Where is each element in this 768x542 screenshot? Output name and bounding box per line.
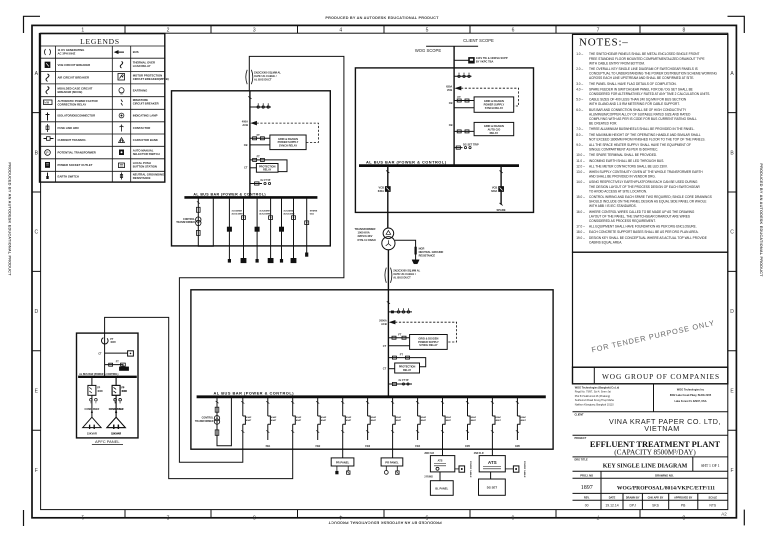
column numbers bottom bbox=[81, 514, 685, 520]
svg-text:4.0 –: 4.0 – bbox=[576, 87, 583, 91]
legend symbol contactor bbox=[120, 125, 124, 132]
svg-text:BREAKER (MCCB): BREAKER (MCCB) bbox=[58, 90, 83, 94]
svg-text:CONTROL WIRING AND EACH SPARE: CONTROL WIRING AND EACH SPARE TWO REQUIR… bbox=[589, 195, 712, 199]
fuse trip tap bbox=[454, 147, 462, 149]
panel box LV switchboard bbox=[191, 290, 553, 449]
svg-text:BUS BAR AND CONNECTION SHALL B: BUS BAR AND CONNECTION SHALL BE OF HIGH … bbox=[589, 108, 687, 112]
svg-text:AL BUS DUCT: AL BUS DUCT bbox=[254, 78, 272, 82]
svg-text:AL BUS BAR (POWER & CONTROL): AL BUS BAR (POWER & CONTROL) bbox=[366, 160, 447, 165]
svg-text:AIR CIRCUIT BREAKER: AIR CIRCUIT BREAKER bbox=[58, 76, 90, 80]
svg-text:RESISTANCE: RESISTANCE bbox=[419, 254, 436, 258]
svg-text:6.0 –: 6.0 – bbox=[576, 108, 583, 112]
svg-text:RESISTANCE: RESISTANCE bbox=[133, 176, 151, 180]
svg-text:AL BUS DUCT: AL BUS DUCT bbox=[393, 276, 411, 280]
svg-text:1: 1 bbox=[81, 514, 84, 520]
capacitor bank delta bbox=[107, 417, 125, 427]
svg-text:WHEN SUPPLY CONTINUITY GIVEN A: WHEN SUPPLY CONTINUITY GIVEN AT THE WHOL… bbox=[589, 170, 703, 174]
svg-text:63AF: 63AF bbox=[246, 416, 252, 419]
column ticks top bbox=[125, 25, 640, 33]
meter box bbox=[128, 351, 134, 356]
sub panel MCC ATS group A bbox=[424, 449, 471, 495]
svg-text:10.0 –: 10.0 – bbox=[576, 153, 585, 157]
fuse F1 bbox=[197, 207, 201, 212]
svg-text:XLPE UG CABLE /: XLPE UG CABLE / bbox=[393, 272, 416, 276]
svg-text:CORRECTION RELAY: CORRECTION RELAY bbox=[58, 102, 87, 106]
indicator lamps bbox=[90, 399, 93, 402]
svg-text:PRODUCED BY AN AUTODESK EDUCAT: PRODUCED BY AN AUTODESK EDUCATIONAL PROD… bbox=[325, 16, 439, 20]
svg-text:14.0 –: 14.0 – bbox=[576, 180, 585, 184]
svg-text:CLIENT: CLIENT bbox=[575, 414, 585, 417]
row letters right bbox=[730, 71, 734, 474]
svg-text:GRID & DG/GEN: GRID & DG/GEN bbox=[418, 336, 438, 340]
svg-text:AC 3PH 50HZ: AC 3PH 50HZ bbox=[58, 52, 76, 56]
svg-text:4: 4 bbox=[339, 514, 342, 520]
svg-text:19.12.14: 19.12.14 bbox=[605, 504, 618, 508]
svg-text:AL BUS BAR (POWER & CONTROL): AL BUS BAR (POWER & CONTROL) bbox=[79, 373, 118, 376]
svg-text:CURRENT TRANSFO.: CURRENT TRANSFO. bbox=[58, 138, 87, 142]
legend symbol fuse bbox=[47, 124, 49, 132]
svg-text:CIRCUIT BREAKER(MPCB): CIRCUIT BREAKER(MPCB) bbox=[133, 77, 169, 81]
resistor NGR bbox=[415, 247, 417, 254]
svg-text:FP: FP bbox=[97, 388, 100, 390]
svg-text:Lake Forest FL 32937, USA: Lake Forest FL 32937, USA bbox=[674, 400, 706, 403]
svg-text:630A: 630A bbox=[446, 85, 452, 89]
svg-text:THE MAXIMUM HEIGHT OF THE OPER: THE MAXIMUM HEIGHT OF THE OPERATING HAND… bbox=[589, 133, 701, 137]
svg-text:POWER CABLE: POWER CABLE bbox=[469, 461, 472, 478]
corner trim mark bottom-left bbox=[23, 510, 25, 526]
legend symbol isolator bbox=[46, 113, 50, 121]
svg-text:8002 Lake Creek Pkwy, BLDG #20: 8002 Lake Creek Pkwy, BLDG #205 bbox=[670, 394, 712, 397]
svg-text:LOAD RELAY: LOAD RELAY bbox=[133, 64, 151, 68]
svg-text:63A: 63A bbox=[310, 212, 314, 215]
svg-text:2: 2 bbox=[167, 27, 170, 33]
svg-text:40AT: 40AT bbox=[396, 419, 402, 422]
svg-text:400A: 400A bbox=[242, 119, 248, 123]
svg-text:40AT: 40AT bbox=[446, 419, 452, 422]
middle-left MCC panel bbox=[172, 91, 331, 263]
svg-text:WOG GROUP OF COMPANIES: WOG GROUP OF COMPANIES bbox=[602, 372, 720, 381]
svg-text:15KVAR: 15KVAR bbox=[87, 432, 97, 436]
svg-text:11.0 –: 11.0 – bbox=[576, 159, 585, 163]
svg-text:1000 KVA: 1000 KVA bbox=[358, 231, 370, 235]
svg-text:PR PANEL: PR PANEL bbox=[385, 460, 399, 464]
relay U2 auto changeover relay box bbox=[474, 122, 514, 135]
ground earth arrow bbox=[412, 260, 419, 264]
wire ct tap to synch relay bbox=[388, 345, 409, 347]
svg-text:WOG Technologies (Bangkok) Co.: WOG Technologies (Bangkok) Co.Ltd bbox=[575, 386, 620, 389]
capacitor bank delta bbox=[83, 417, 101, 427]
svg-text:2ND FLR: 2ND FLR bbox=[424, 453, 434, 455]
wire APFC feeder cable route bbox=[105, 317, 293, 478]
svg-text:LEGENDS: LEGENDS bbox=[80, 37, 120, 46]
column numbers top bbox=[81, 27, 685, 33]
svg-text:SYNCH RELAY: SYNCH RELAY bbox=[419, 343, 438, 347]
legend symbol ct bbox=[44, 138, 54, 140]
revision header row bbox=[573, 493, 728, 509]
LV bus outgoing feeders bbox=[241, 397, 526, 449]
transformer control CT1 bbox=[196, 217, 201, 222]
notes box bbox=[573, 34, 728, 252]
svg-text:63AF: 63AF bbox=[271, 416, 277, 419]
svg-text:63AF: 63AF bbox=[296, 416, 302, 419]
svg-text:AUTO C/O: AUTO C/O bbox=[488, 128, 501, 132]
svg-text:1: 1 bbox=[81, 27, 84, 33]
wire kwh meter tap bbox=[454, 59, 469, 61]
svg-text:2000A: 2000A bbox=[379, 319, 387, 323]
svg-text:THE PANEL SHALL HAVE FLAG DETA: THE PANEL SHALL HAVE FLAG DETAILS OF COM… bbox=[589, 82, 677, 86]
cable marker MCC incomer bbox=[246, 70, 253, 84]
legend symbol mccb bbox=[46, 87, 49, 95]
svg-text:SELECTOR SWITCH: SELECTOR SWITCH bbox=[133, 152, 160, 156]
panel box MCC bbox=[172, 91, 331, 246]
bus bar HT (power and control) bbox=[359, 164, 519, 167]
svg-text:NOTES:–: NOTES:– bbox=[579, 37, 629, 49]
legends table bbox=[40, 34, 169, 183]
feeder F7 bbox=[391, 397, 402, 449]
svg-text:THREE ALUMINIUM BUSWHEELS SHAL: THREE ALUMINIUM BUSWHEELS SHALL BE PROVI… bbox=[589, 127, 695, 131]
svg-text:AL BUS BAR (POWER & CONTROL): AL BUS BAR (POWER & CONTROL) bbox=[193, 192, 266, 196]
transformer control CT2 bbox=[214, 416, 219, 421]
svg-text:RELAY: RELAY bbox=[403, 369, 412, 372]
svg-text:2X(3CX300 SQ.MM AL: 2X(3CX300 SQ.MM AL bbox=[393, 269, 420, 273]
project no value row bbox=[573, 492, 728, 494]
svg-text:SINGLE COMPARTMENT AS PER IS 6: SINGLE COMPARTMENT AS PER IS 60947/IEC. bbox=[589, 148, 658, 152]
svg-text:CONSIDERED AS PROCESS REQUIREM: CONSIDERED AS PROCESS REQUIREMENT. bbox=[589, 219, 656, 223]
svg-text:1.0 –: 1.0 – bbox=[576, 52, 583, 56]
svg-text:ALL THE SPACE HEATER SUPPLY SH: ALL THE SPACE HEATER SUPPLY SHALL HAVE T… bbox=[589, 143, 691, 147]
svg-text:40AT: 40AT bbox=[521, 419, 527, 422]
svg-text:22KV/0.4KV: 22KV/0.4KV bbox=[358, 234, 373, 238]
svg-text:PR PANEL: PR PANEL bbox=[336, 460, 350, 464]
svg-text:8.0 –: 8.0 – bbox=[576, 133, 583, 137]
wire incomer drop bbox=[249, 91, 251, 198]
svg-text:F: F bbox=[35, 468, 38, 474]
svg-text:E: E bbox=[35, 389, 39, 395]
svg-text:WOG/PROPOSAL/8014/VKPC/ETP/111: WOG/PROPOSAL/8014/VKPC/ETP/111 bbox=[617, 485, 715, 491]
legend symbol overload relay bbox=[120, 62, 123, 69]
svg-text:3x CT 5P: 3x CT 5P bbox=[260, 179, 271, 182]
svg-text:KEY SINGLE LINE DIAGRAM: KEY SINGLE LINE DIAGRAM bbox=[603, 464, 688, 470]
svg-text:FT: FT bbox=[116, 360, 119, 363]
capacitor branch bbox=[107, 377, 127, 436]
svg-text:400V: 400V bbox=[110, 341, 116, 344]
svg-text:A2: A2 bbox=[721, 512, 727, 517]
client row bbox=[573, 434, 728, 436]
feeder F8 bbox=[415, 397, 427, 448]
inner band line bbox=[41, 33, 728, 509]
feeder left VCB outgoing bbox=[387, 166, 389, 228]
project row bbox=[573, 456, 728, 458]
legend symbol socket bbox=[45, 162, 50, 168]
svg-text:Sukhumvit Road Krung Thep Maha: Sukhumvit Road Krung Thep Maha bbox=[575, 399, 615, 402]
outgoing feeder spare bbox=[305, 197, 318, 256]
svg-text:INDICATING LAMP: INDICATING LAMP bbox=[133, 114, 158, 118]
legend symbol mcb bbox=[121, 100, 123, 106]
legend symbol mpcb bbox=[118, 74, 125, 81]
svg-text:19.0 –: 19.0 – bbox=[576, 236, 585, 240]
wire ct tap to synch relay bbox=[454, 107, 474, 109]
title block bbox=[573, 252, 728, 509]
legend symbol apfc relay bbox=[44, 100, 53, 105]
legends grid lines bbox=[40, 46, 165, 171]
svg-text:DRG TITLE: DRG TITLE bbox=[575, 459, 589, 462]
svg-text:RELAY: RELAY bbox=[490, 131, 499, 135]
svg-text:1W2: 1W2 bbox=[315, 445, 321, 448]
svg-text:VCB: VCB bbox=[492, 186, 498, 190]
sub panel PR2 bbox=[381, 449, 403, 474]
legend symbol lamp bbox=[119, 113, 124, 118]
APFC panel bbox=[77, 333, 139, 445]
svg-text:Plot 54 Sukhumvit 26 (Prakong): Plot 54 Sukhumvit 26 (Prakong) bbox=[575, 395, 610, 398]
stamp box bbox=[573, 252, 728, 367]
svg-text:XLPE UG CABLE /: XLPE UG CABLE / bbox=[254, 74, 277, 78]
svg-text:8: 8 bbox=[682, 514, 685, 520]
drawing title row bbox=[573, 457, 728, 471]
svg-text:2ND FLR: 2ND FLR bbox=[474, 453, 484, 455]
legends outer box bbox=[40, 34, 165, 183]
legend symbol acb bbox=[46, 74, 49, 82]
svg-text:3CX25MM: 3CX25MM bbox=[232, 211, 243, 213]
svg-text:630A: 630A bbox=[378, 189, 384, 193]
svg-text:Regd No. 79/97, Soi 4, Serm-Ja: Regd No. 79/97, Soi 4, Serm-Jai bbox=[575, 391, 611, 394]
svg-text:DRAWN BY: DRAWN BY bbox=[626, 496, 640, 499]
svg-text:63AF: 63AF bbox=[321, 416, 327, 419]
svg-text:POTENTIAL TRANSFORMER: POTENTIAL TRANSFORMER bbox=[58, 151, 96, 155]
svg-text:NOT EXCEED 1800MM FROM FINISHE: NOT EXCEED 1800MM FROM FINISHED FLOOR TO… bbox=[589, 137, 706, 141]
breaker Q1 black box bbox=[385, 187, 390, 192]
svg-text:7: 7 bbox=[597, 27, 600, 33]
svg-text:LAYOUT OF THE PANEL, THE SWITC: LAYOUT OF THE PANEL, THE SWITCHGEAR DRAW… bbox=[589, 214, 690, 218]
relay U5 synch relay box bbox=[410, 335, 448, 350]
svg-text:18.0 –: 18.0 – bbox=[576, 230, 585, 234]
svg-text:BE CREATED FOR.: BE CREATED FOR. bbox=[589, 122, 617, 126]
svg-text:B: B bbox=[730, 150, 734, 156]
svg-text:40AT: 40AT bbox=[346, 419, 352, 422]
svg-text:SHOULD INCLUDE ON THE PANEL DE: SHOULD INCLUDE ON THE PANEL DESIGN AS EQ… bbox=[589, 200, 706, 204]
svg-text:4CX2.5MM: 4CX2.5MM bbox=[259, 212, 270, 215]
svg-text:400D: 400D bbox=[121, 390, 127, 393]
svg-text:GRID & DG/GEN: GRID & DG/GEN bbox=[484, 124, 504, 128]
svg-text:4CX2.5MM: 4CX2.5MM bbox=[283, 212, 294, 215]
svg-text:5: 5 bbox=[425, 514, 428, 520]
feeder F11 bbox=[491, 397, 502, 449]
svg-text:40AT: 40AT bbox=[471, 419, 477, 422]
svg-text:5.0 –: 5.0 – bbox=[576, 98, 583, 102]
feeder F12 bbox=[515, 397, 527, 448]
svg-text:VCB: VCB bbox=[447, 88, 453, 92]
address row bbox=[573, 384, 728, 412]
top HT incomer section bbox=[355, 38, 534, 290]
svg-text:63AF: 63AF bbox=[421, 416, 427, 419]
svg-text:CONCEPTUAL TO UNDERSTANDING TH: CONCEPTUAL TO UNDERSTANDING THE POWER DI… bbox=[589, 72, 717, 76]
notes section bbox=[573, 34, 728, 252]
svg-text:SKS: SKS bbox=[652, 504, 660, 508]
svg-text:F: F bbox=[730, 468, 733, 474]
svg-text:CIRCUIT BREAKER: CIRCUIT BREAKER bbox=[133, 101, 159, 105]
svg-text:1W6: 1W6 bbox=[515, 445, 521, 448]
isolator 3ph fuse tap bbox=[250, 106, 271, 108]
svg-text:40AT: 40AT bbox=[371, 419, 377, 422]
svg-text:CT: CT bbox=[383, 367, 387, 371]
wire ct tap to protection relay bbox=[250, 167, 257, 169]
svg-text:A: A bbox=[730, 71, 734, 77]
svg-text:DRAWING NO.: DRAWING NO. bbox=[655, 473, 674, 477]
feeder F9 bbox=[441, 397, 452, 449]
legend symbol bus arrow bbox=[115, 51, 124, 54]
capacitor branch bbox=[83, 377, 128, 436]
svg-text:15.0 –: 15.0 – bbox=[576, 195, 585, 199]
indicator lamps bbox=[114, 399, 117, 402]
svg-text:CB: CB bbox=[244, 143, 248, 147]
isolator 3ph fuse tap bbox=[388, 311, 412, 313]
svg-text:CAPACITOR BANK: CAPACITOR BANK bbox=[133, 138, 158, 142]
svg-text:2.0 –: 2.0 – bbox=[576, 67, 583, 71]
svg-text:ACROSS EACH LINE UPSTREAM AND: ACROSS EACH LINE UPSTREAM AND SHALL BE C… bbox=[589, 76, 694, 80]
svg-text:63AF: 63AF bbox=[346, 416, 352, 419]
svg-text:CB: CB bbox=[449, 101, 453, 105]
svg-text:DPJ: DPJ bbox=[629, 504, 636, 508]
svg-text:FUSE LINK HRC: FUSE LINK HRC bbox=[58, 126, 80, 130]
bus bar MCC bbox=[184, 196, 317, 199]
transformer T1 bbox=[383, 228, 394, 239]
svg-text:COMPLYING WITH AS PER IS CODE: COMPLYING WITH AS PER IS CODE FOR BUS CU… bbox=[589, 117, 697, 121]
svg-text:5: 5 bbox=[426, 27, 429, 33]
svg-text:TRANSFORMER: TRANSFORMER bbox=[355, 227, 376, 231]
legend symbol selector switch bbox=[119, 150, 124, 156]
svg-text:PROJECT: PROJECT bbox=[575, 437, 587, 440]
svg-text:POWER SUPPLY: POWER SUPPLY bbox=[484, 102, 505, 106]
legend symbol earthing bbox=[119, 88, 124, 93]
outgoing feeder group 3 bbox=[279, 197, 296, 262]
fuse tap to apfc relay bbox=[105, 365, 123, 367]
row letters left bbox=[34, 71, 38, 474]
svg-text:(CAPACITY 8500M³/DAY): (CAPACITY 8500M³/DAY) bbox=[614, 449, 696, 457]
wire dashed relay link bbox=[257, 123, 319, 142]
breaker MCCB bbox=[88, 385, 96, 395]
svg-text:Nakhon Klongtoey, Bangkok 1011: Nakhon Klongtoey, Bangkok 10110 bbox=[575, 404, 614, 407]
cable marker LV bbox=[385, 268, 392, 283]
svg-text:AL BUS BAR (POWER & CONTROL): AL BUS BAR (POWER & CONTROL) bbox=[214, 390, 295, 395]
svg-text:FT: FT bbox=[257, 155, 261, 159]
svg-text:ACB: ACB bbox=[381, 322, 387, 326]
svg-text:40AT: 40AT bbox=[246, 419, 252, 422]
svg-text:1W3: 1W3 bbox=[365, 445, 371, 448]
svg-text:1W1: 1W1 bbox=[265, 445, 271, 448]
svg-text:VIETNAM: VIETNAM bbox=[644, 424, 679, 433]
svg-text:C: C bbox=[34, 230, 38, 236]
column ticks bottom bbox=[125, 510, 640, 518]
feeder F4 bbox=[315, 397, 327, 448]
svg-text:SPARE FEEDER IN SWITCHGEAR PAN: SPARE FEEDER IN SWITCHGEAR PANEL FOR DB … bbox=[589, 87, 693, 91]
svg-text:P: P bbox=[46, 151, 49, 155]
svg-text:THE SWITCHGEAR PANELS SHALL BE: THE SWITCHGEAR PANELS SHALL BE METAL ENC… bbox=[589, 52, 700, 56]
svg-text:CONSIDERED FOR ALTERNATIVELY R: CONSIDERED FOR ALTERNATIVELY RATED AT AN… bbox=[589, 92, 710, 96]
svg-text:2 RUNS: 2 RUNS bbox=[424, 477, 433, 479]
svg-text:CABLE SIZES OF 400 LESS THAN 2: CABLE SIZES OF 400 LESS THAN 240 SQ.MM F… bbox=[589, 98, 687, 102]
svg-text:SHT 1 OF 1: SHT 1 OF 1 bbox=[701, 464, 720, 468]
panel box HT switchgear bbox=[355, 68, 533, 213]
svg-text:DESIGN KEY SHALL BE CONCEPTUAL: DESIGN KEY SHALL BE CONCEPTUAL WHERE AS … bbox=[589, 236, 707, 240]
svg-text:ALL THE METER CONTACTORS SHALL: ALL THE METER CONTACTORS SHALL BE LED 23… bbox=[589, 164, 668, 168]
svg-text:C: C bbox=[730, 230, 734, 236]
svg-text:WOG SCOPE: WOG SCOPE bbox=[415, 48, 441, 53]
svg-text:3: 3 bbox=[253, 27, 256, 33]
isolator 3ph fuse tap bbox=[454, 75, 471, 77]
svg-text:SPARE: SPARE bbox=[497, 208, 506, 212]
svg-text:D: D bbox=[730, 309, 734, 315]
wire ct tap to protection relay bbox=[388, 368, 394, 370]
svg-text:40AT: 40AT bbox=[271, 419, 277, 422]
legend symbol pt bbox=[45, 150, 51, 156]
svg-text:WITH ABB / IS IEC STANDARDS.: WITH ABB / IS IEC STANDARDS. bbox=[589, 204, 637, 208]
breaker draw-out arrow bbox=[251, 121, 256, 125]
svg-text:4CX2.5MM: 4CX2.5MM bbox=[232, 212, 243, 215]
svg-text:BL PANEL: BL PANEL bbox=[435, 486, 448, 490]
bus bar APFC bbox=[78, 376, 137, 378]
svg-text:CONDENSER: CONDENSER bbox=[109, 409, 124, 411]
svg-text:63AF: 63AF bbox=[521, 416, 527, 419]
svg-text:9.0 –: 9.0 – bbox=[576, 143, 583, 147]
capacitor branch bbox=[107, 377, 127, 436]
svg-text:WHERE CONTROL WIRES CALLED TO: WHERE CONTROL WIRES CALLED TO BE MADE UP… bbox=[589, 210, 695, 214]
svg-text:7: 7 bbox=[596, 514, 599, 520]
fuse F4 bbox=[215, 430, 219, 435]
svg-text:63AF: 63AF bbox=[371, 416, 377, 419]
legend symbol push button bbox=[119, 163, 125, 168]
corner trim mark bottom-right bbox=[743, 510, 745, 526]
wire incomer drop bbox=[387, 290, 389, 397]
sub panel MCC ATS group B bbox=[474, 449, 526, 495]
panel box APFC bbox=[77, 333, 139, 438]
svg-text:12.0 –: 12.0 – bbox=[576, 164, 585, 168]
svg-text:63AF: 63AF bbox=[496, 416, 502, 419]
control transformer branch loop bbox=[198, 197, 213, 246]
relay U3 synch relay box bbox=[270, 135, 306, 150]
svg-text:D: D bbox=[34, 309, 38, 315]
corner trim mark top-right bbox=[728, 16, 745, 33]
svg-text:11KV TIE & 100KVA SUPP: 11KV TIE & 100KVA SUPP bbox=[476, 56, 508, 60]
row ticks right bbox=[728, 113, 737, 431]
feeder F5 bbox=[341, 397, 352, 449]
feeder F10 bbox=[465, 397, 477, 448]
ct metering tap bbox=[250, 183, 262, 185]
svg-text:1W4: 1W4 bbox=[415, 445, 421, 448]
svg-text:2: 2 bbox=[166, 514, 169, 520]
legend symbol earth switch bbox=[47, 173, 49, 180]
revision value row bbox=[585, 504, 717, 508]
svg-text:FREE STANDING FLOOR MOUNTED CO: FREE STANDING FLOOR MOUNTED COMPARTMENTA… bbox=[589, 57, 705, 61]
legend texts column 1 bbox=[58, 48, 98, 179]
wire dashed relay link bbox=[461, 88, 519, 106]
breaker draw-out arrow bbox=[390, 320, 395, 324]
svg-text:15KVAR: 15KVAR bbox=[111, 432, 121, 436]
svg-text:3.0 –: 3.0 – bbox=[576, 82, 583, 86]
svg-text:THE SPARE TERMINAL SHALL BE PR: THE SPARE TERMINAL SHALL BE PROVIDED. bbox=[589, 153, 657, 157]
feeder F6 bbox=[365, 397, 377, 448]
svg-text:3CX25MM: 3CX25MM bbox=[259, 211, 270, 213]
svg-text:2X(3CX300 SQ.MM AL: 2X(3CX300 SQ.MM AL bbox=[254, 71, 281, 75]
svg-text:TO AVOID ACCESS AT SITE LOCATI: TO AVOID ACCESS AT SITE LOCATION. bbox=[589, 189, 647, 193]
breaker draw-out arrow bbox=[455, 86, 461, 90]
svg-text:8: 8 bbox=[683, 27, 686, 33]
svg-text:EACH CONCRETE SUPPORT BASES SH: EACH CONCRETE SUPPORT BASES SHALL BE AS … bbox=[589, 230, 699, 234]
svg-text:E: E bbox=[730, 389, 734, 395]
svg-text:AND SHALL BE PROVIDED IN VENDO: AND SHALL BE PROVIDED IN VENDOR DRG. bbox=[589, 175, 656, 179]
svg-text:RELAY: RELAY bbox=[263, 169, 272, 172]
svg-text:CT: CT bbox=[98, 352, 102, 355]
relay U4 protection relay box bbox=[256, 164, 278, 173]
project no header row bbox=[573, 471, 728, 493]
